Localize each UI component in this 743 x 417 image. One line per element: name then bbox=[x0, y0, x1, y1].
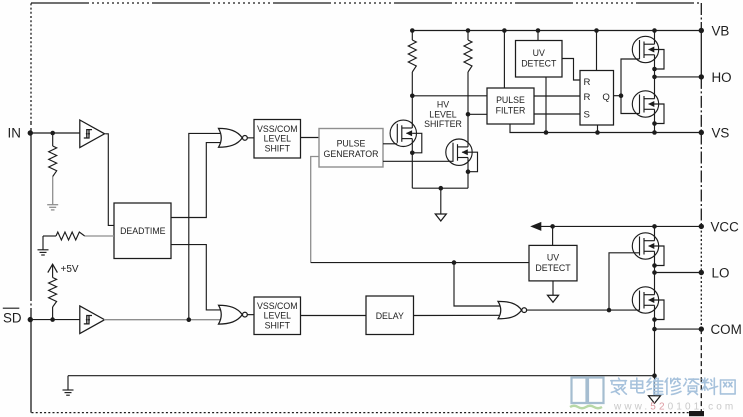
transistor M6 (LO pull-down) bbox=[632, 287, 658, 313]
pin VB bbox=[699, 28, 704, 33]
wire IN to buffer bbox=[30, 132, 80, 134]
wire M6 source to COM bbox=[654, 305, 656, 329]
wire Q to M3 gate bbox=[621, 59, 640, 96]
wire VB to UV detect bbox=[537, 31, 539, 41]
wire VB to latch bbox=[596, 31, 598, 71]
svg-text:PULSE: PULSE bbox=[337, 139, 366, 149]
ground (VSS) bbox=[63, 389, 74, 391]
svg-text:UV: UV bbox=[533, 48, 545, 58]
svg-text:LEVEL: LEVEL bbox=[429, 109, 456, 119]
resistor R3 (SD pull-up) bbox=[52, 264, 54, 277]
VCC line with arrow bbox=[536, 225, 701, 227]
resistor R2 (deadtime set) bbox=[43, 235, 56, 237]
svg-text:LEVEL: LEVEL bbox=[264, 134, 291, 144]
svg-text:FILTER: FILTER bbox=[496, 106, 526, 116]
block VSS/COM level shift (low side) bbox=[254, 297, 301, 335]
wire delay to gate G3 bbox=[414, 314, 503, 316]
wire G3 output bbox=[527, 309, 640, 311]
svg-text:VCC: VCC bbox=[711, 219, 740, 234]
arrow UV detect to logic bbox=[548, 295, 559, 302]
NOR gate G2 bbox=[219, 305, 243, 324]
svg-text:VB: VB bbox=[712, 24, 730, 39]
svg-text:R: R bbox=[584, 77, 591, 88]
node VCC taps bbox=[550, 224, 555, 229]
wire SD to buffer bbox=[30, 319, 80, 321]
svg-text:Q: Q bbox=[602, 92, 609, 103]
block RS latch bbox=[580, 71, 614, 126]
pin VS bbox=[699, 130, 704, 135]
node SD signal tap bbox=[187, 317, 192, 322]
wire VSS rail to ground bbox=[67, 376, 69, 390]
block PULSE GENERATOR bbox=[319, 129, 383, 168]
wire pulse filter to latch S bbox=[534, 113, 580, 115]
wire pulse filter to latch R2 bbox=[534, 95, 580, 97]
VSS arrow (level shifter return) bbox=[435, 214, 446, 221]
pin SD (active low) bbox=[28, 317, 33, 322]
svg-text:SHIFT: SHIFT bbox=[265, 143, 291, 153]
VB rail bbox=[412, 30, 701, 32]
wire VSS rail to arrow bbox=[654, 376, 656, 396]
wire M2 source bbox=[467, 158, 469, 189]
wire M3 drain to VB bbox=[654, 31, 656, 45]
wire M1 source bbox=[411, 139, 413, 189]
VSS rail bbox=[68, 375, 655, 377]
pin HO bbox=[699, 74, 704, 79]
wire G2 to level shift bbox=[248, 314, 255, 316]
wire M3 source to HO bbox=[654, 55, 656, 77]
block PULSE FILTER bbox=[487, 88, 534, 124]
wire DEADTIME out A to gate G1 bbox=[171, 143, 222, 218]
ground (R2) bbox=[38, 249, 49, 251]
wire R2 to ground bbox=[42, 236, 44, 250]
node LO junction bbox=[652, 270, 657, 275]
node SD junction bbox=[50, 317, 55, 322]
wire M4 source to VS bbox=[654, 109, 656, 132]
node aux line junction bbox=[452, 260, 457, 265]
svg-text:+5V: +5V bbox=[61, 264, 79, 275]
wire M1 drain bbox=[411, 96, 413, 128]
svg-text:PULSE: PULSE bbox=[496, 95, 525, 105]
NOR gate G1 bbox=[219, 128, 243, 147]
pin IN bbox=[28, 130, 33, 135]
watermark logo (book icon) bbox=[572, 378, 587, 404]
wire G1 to level shift bbox=[248, 137, 255, 139]
pin LO bbox=[699, 270, 704, 275]
wire VCC to UV detect bbox=[552, 226, 554, 245]
svg-text:www.520101.com: www.520101.com bbox=[613, 402, 736, 413]
node VSS rail end bbox=[652, 373, 657, 378]
wire UV detect to latch R1 bbox=[562, 59, 580, 81]
svg-text:VS: VS bbox=[712, 126, 730, 141]
svg-text:HV: HV bbox=[437, 99, 449, 109]
wire M5 source to LO bbox=[654, 251, 656, 272]
wire M2 drain bbox=[467, 114, 469, 147]
svg-text:S: S bbox=[584, 109, 590, 120]
pin COM bbox=[699, 326, 704, 331]
block VSS/COM level shift (high side) bbox=[254, 120, 301, 159]
block DELAY bbox=[366, 296, 414, 335]
svg-text:SHIFT: SHIFT bbox=[265, 321, 291, 331]
resistor R4 (level shift load A) bbox=[411, 31, 413, 41]
ground (R1) bbox=[47, 204, 58, 206]
node HO junction bbox=[652, 75, 657, 80]
transistor M2 (level shift B) bbox=[446, 139, 472, 165]
resistor R5 (level shift load B) bbox=[467, 31, 469, 41]
wire level shift to delay bbox=[301, 315, 367, 317]
transistor M3 (HO pull-up) bbox=[632, 36, 658, 62]
wire Q to M4 gate bbox=[621, 96, 640, 114]
VS rail bbox=[510, 124, 701, 133]
block UV DETECT (high side) bbox=[516, 41, 563, 78]
node Q bbox=[619, 93, 624, 98]
wire pulse gen aux (to UV detect) bbox=[311, 157, 319, 263]
wire level shift to pulse generator bbox=[301, 137, 320, 139]
svg-text:VSS/COM: VSS/COM bbox=[257, 124, 298, 134]
wire LO line bbox=[655, 272, 702, 274]
wire common source rail bbox=[412, 187, 468, 189]
svg-text:DETECT: DETECT bbox=[535, 263, 571, 273]
svg-text:GENERATOR: GENERATOR bbox=[324, 149, 379, 159]
svg-text:SD: SD bbox=[3, 310, 22, 325]
wire pulse gen to M1 gate bbox=[383, 143, 397, 145]
svg-text:LO: LO bbox=[712, 266, 730, 281]
wire pulse gen to M2 gate bbox=[383, 160, 453, 162]
node VS rail taps bbox=[544, 130, 549, 135]
node LO gate tap bbox=[607, 308, 612, 313]
wire M5 drain to VCC bbox=[654, 226, 656, 240]
node source rail mid bbox=[439, 186, 444, 191]
svg-text:DETECT: DETECT bbox=[521, 59, 557, 69]
wire aux to gate G3 bbox=[454, 263, 502, 306]
VSS arrow (chip return) bbox=[649, 396, 661, 404]
wire HO line bbox=[655, 76, 702, 78]
node VB rail taps bbox=[410, 28, 415, 33]
wire R4 to pulse filter bbox=[412, 95, 487, 97]
NOR gate G3 (LO drive) bbox=[498, 301, 522, 318]
wire DEADTIME out B to gate G2 bbox=[171, 245, 222, 310]
wire COM down to VSS rail bbox=[654, 329, 656, 376]
wire R5 to pulse filter bbox=[468, 113, 487, 115]
wire SD signal to gate G1 bbox=[189, 133, 222, 319]
svg-text:LEVEL: LEVEL bbox=[264, 311, 291, 321]
wire UV detect to VS rail bbox=[545, 77, 547, 133]
wire latch to VS rail bbox=[597, 125, 599, 133]
wire to VSS arrow bbox=[440, 188, 442, 214]
svg-text:UV: UV bbox=[547, 252, 559, 262]
schmitt buffer U1 (IN) bbox=[80, 120, 105, 148]
wire M6 drain bbox=[654, 273, 656, 295]
wire latch Q output bbox=[614, 95, 622, 97]
transistor M4 (HO pull-down) bbox=[632, 91, 658, 117]
block UV DETECT (low side) bbox=[529, 245, 577, 281]
watermark site name (stylized CJK strokes) bbox=[611, 378, 627, 394]
transistor M1 (level shift A) bbox=[390, 120, 416, 146]
svg-text:DEADTIME: DEADTIME bbox=[120, 226, 166, 236]
svg-text:COM: COM bbox=[711, 322, 742, 337]
wire U1 output to DEADTIME bbox=[105, 134, 114, 226]
svg-text:SHIFTER: SHIFTER bbox=[424, 119, 462, 129]
wire COM line bbox=[655, 328, 702, 330]
svg-text:R: R bbox=[584, 92, 591, 103]
node COM junction bbox=[652, 327, 657, 332]
schmitt buffer U2 (SD) bbox=[80, 306, 105, 334]
svg-text:DELAY: DELAY bbox=[376, 311, 404, 321]
node R4 output bbox=[410, 94, 415, 99]
transistor M5 (LO pull-up) bbox=[632, 233, 658, 259]
wire VB to pulse filter bbox=[503, 31, 505, 89]
corner mark bbox=[689, 411, 704, 416]
svg-text:HO: HO bbox=[712, 70, 732, 85]
block DEADTIME bbox=[114, 203, 171, 259]
wire to M5 gate bbox=[609, 253, 640, 310]
svg-text:IN: IN bbox=[8, 126, 21, 141]
pin VCC bbox=[699, 224, 704, 229]
wire M4 drain bbox=[654, 77, 656, 99]
wire UV detect down bbox=[552, 281, 554, 296]
node R5 output bbox=[466, 112, 471, 117]
node IN junction bbox=[50, 131, 55, 136]
svg-text:VSS/COM: VSS/COM bbox=[257, 301, 298, 311]
supply arrow +5V bbox=[48, 264, 58, 272]
resistor R1 (IN pull-down) bbox=[52, 133, 54, 146]
IC package boundary (dash-dot border) bbox=[31, 2, 701, 4]
wire U2 output line bbox=[104, 319, 222, 321]
